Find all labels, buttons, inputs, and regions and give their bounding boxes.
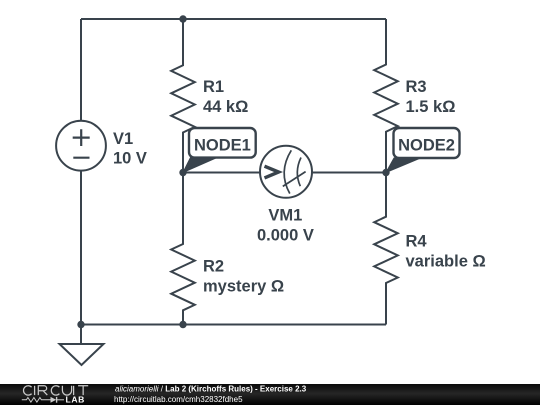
node junction dot bottom left bbox=[77, 321, 84, 328]
svg-text:NODE2: NODE2 bbox=[398, 136, 455, 154]
wire ground lead bbox=[80, 325, 82, 345]
node NODE1 callout bbox=[183, 128, 256, 173]
node NODE2 callout bbox=[386, 128, 460, 173]
svg-text:R1: R1 bbox=[203, 78, 224, 96]
svg-text:1.5 kΩ: 1.5 kΩ bbox=[406, 98, 456, 116]
svg-text:R4: R4 bbox=[406, 233, 428, 251]
svg-text:variable Ω: variable Ω bbox=[406, 252, 486, 270]
node junction dot NODE1 bbox=[179, 169, 186, 176]
svg-text:0.000 V: 0.000 V bbox=[257, 227, 314, 245]
wire bottom horizontal bbox=[81, 324, 386, 326]
ground bbox=[60, 344, 104, 365]
node junction dot bottom middle bbox=[179, 321, 186, 328]
wire left vertical top (to V1) bbox=[80, 19, 82, 121]
svg-text:mystery Ω: mystery Ω bbox=[203, 277, 284, 295]
svg-text:V1: V1 bbox=[113, 130, 133, 148]
svg-text:VM1: VM1 bbox=[268, 207, 302, 225]
resistor R2 bbox=[171, 173, 195, 325]
svg-text:10 V: 10 V bbox=[113, 150, 147, 168]
svg-text:44 kΩ: 44 kΩ bbox=[203, 98, 248, 116]
svg-text:NODE1: NODE1 bbox=[194, 136, 251, 154]
logo CIRCUIT wordmark bbox=[24, 386, 89, 395]
voltmeter VM1 bbox=[260, 146, 312, 198]
svg-text:R2: R2 bbox=[203, 258, 224, 276]
resistor R1 bbox=[171, 19, 195, 173]
svg-text:http://circuitlab.com/cmh32832: http://circuitlab.com/cmh32832fdhe5 bbox=[114, 395, 243, 404]
wire top horizontal bbox=[81, 18, 386, 20]
voltage source V1 bbox=[56, 121, 106, 171]
V1 minus sign bbox=[73, 157, 89, 159]
wire middle horizontal NODE1 to NODE2 bbox=[183, 172, 386, 174]
node junction dot NODE2 bbox=[382, 169, 389, 176]
V1 plus sign bbox=[73, 129, 90, 146]
resistor R4 bbox=[374, 173, 398, 325]
svg-text:R3: R3 bbox=[406, 78, 427, 96]
logo diode bbox=[51, 397, 57, 403]
node junction dot top rail bbox=[179, 15, 186, 22]
svg-text:LAB: LAB bbox=[66, 394, 85, 404]
svg-text:aliciamorielli / Lab 2 (Kircho: aliciamorielli / Lab 2 (Kirchoffs Rules)… bbox=[115, 385, 307, 394]
wire left vertical bottom (V1 to bottom rail) bbox=[80, 171, 82, 325]
logo resistor zigzag bbox=[22, 398, 51, 403]
resistor R3 bbox=[374, 19, 398, 173]
